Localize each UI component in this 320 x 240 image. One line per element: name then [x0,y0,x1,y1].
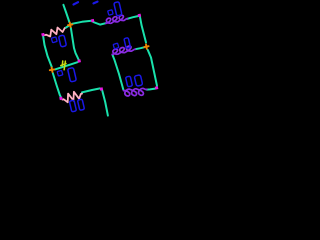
terminal M1 [41,33,45,37]
wire J2 down to M4 [53,73,61,97]
label L1 value 0 [114,2,122,16]
terminal M2 [91,19,95,23]
label R1 value 0 [59,35,67,47]
wire top-left vertical [63,5,69,23]
junction J1 [68,23,72,27]
terminal M4 [59,97,63,101]
wire M7 down end [102,91,108,116]
wire L2 to J3 [135,47,144,49]
label L2 value 0 [124,38,131,49]
wire M2 to L1 [93,22,106,25]
wire J2 up to M1 [43,37,52,68]
inductor L1 [106,15,128,23]
label fragment top A [74,2,79,4]
wire J1 down to M3 [71,28,79,60]
junction J3 [144,44,148,48]
wire J3 down to M6 [148,50,157,86]
wire M6 to L3 [147,89,155,90]
terminal M6 [155,86,159,90]
node label yellow [60,61,66,70]
terminal M3 [77,59,81,63]
label node label small [57,70,63,76]
label L2 small digit [113,43,119,49]
label fragment top B [94,2,98,4]
junction J2 [50,68,54,72]
wire J1 to M2 [72,21,92,24]
terminal M5 [138,14,142,18]
wire M5 down to J3 [140,17,146,43]
inductor L2 [112,46,135,54]
label L3 digit 1 [126,76,133,87]
terminal M7 [100,87,104,91]
label R2 digit 2 [77,99,84,110]
resistor R2 [62,92,82,103]
wire L1 to M5 [127,16,138,19]
label R2 digit 1 [69,100,76,112]
inductor L3 [124,88,147,96]
label L3 digit 2 [134,75,142,87]
wire R2 to M7 [82,88,100,92]
label R1 small digit [51,37,57,43]
wire M3 to J2 [55,62,78,69]
wire L3 left riser [112,55,123,90]
resistor R1 [45,28,66,37]
label node label 0 [68,67,77,82]
label L1 small digit [108,10,113,15]
